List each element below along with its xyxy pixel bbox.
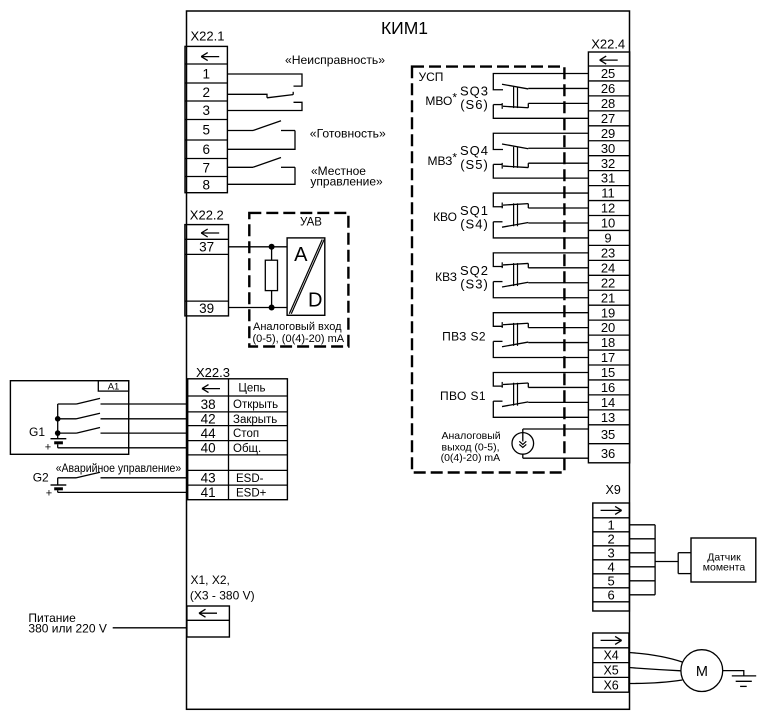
svg-text:7: 7: [202, 160, 210, 175]
box A1 (external control): [10, 381, 128, 455]
svg-text:«Неисправность»: «Неисправность»: [285, 53, 385, 67]
svg-text:35: 35: [601, 427, 615, 442]
svg-text:Открыть: Открыть: [233, 399, 278, 411]
svg-text:X9: X9: [606, 483, 621, 497]
torque sensor connector bracket: [678, 553, 691, 574]
svg-text:УАВ: УАВ: [300, 217, 322, 229]
svg-text:23: 23: [601, 245, 615, 260]
svg-text:25: 25: [601, 66, 615, 81]
svg-text:+: +: [45, 442, 51, 454]
wires X9 pins 1-6 to bus: [629, 525, 655, 595]
svg-text:Аналоговый вход: Аналоговый вход: [253, 321, 342, 333]
wire X5 to motor: [629, 668, 682, 671]
svg-text:31: 31: [601, 171, 615, 186]
svg-text:14: 14: [601, 395, 615, 410]
wire motor to ground: [723, 671, 744, 676]
svg-text:43: 43: [201, 471, 216, 486]
svg-text:(S5): (S5): [460, 157, 489, 172]
svg-text:G1: G1: [29, 425, 45, 439]
connector X4, X5, X6: [593, 633, 629, 692]
wire 39 to A/D: [229, 307, 288, 309]
svg-text:36: 36: [601, 446, 615, 461]
svg-text:41: 41: [201, 485, 216, 500]
svg-text:X22.1: X22.1: [191, 29, 225, 44]
svg-text:27: 27: [601, 111, 615, 126]
svg-text:13: 13: [601, 410, 615, 425]
svg-text:КВЗ: КВЗ: [435, 270, 457, 284]
svg-text:X22.2: X22.2: [190, 208, 224, 223]
wire to pin 36: [523, 457, 589, 459]
svg-text:ESD-: ESD-: [236, 473, 264, 485]
wire G2 plus to pin 41: [58, 491, 188, 493]
svg-text:+: +: [46, 488, 52, 500]
svg-text:19: 19: [601, 305, 615, 320]
switch Закрыть (to pin 42): [58, 413, 188, 419]
svg-text:18: 18: [601, 335, 615, 350]
svg-text:момента: момента: [703, 561, 746, 573]
svg-text:4: 4: [607, 559, 614, 574]
svg-text:D: D: [308, 290, 322, 312]
resistor (input shunt): [265, 247, 277, 308]
svg-text:8: 8: [202, 177, 210, 192]
svg-text:1: 1: [607, 517, 614, 532]
svg-text:40: 40: [201, 441, 216, 456]
svg-text:21: 21: [601, 290, 615, 305]
svg-text:3: 3: [202, 103, 210, 118]
relay changeover contact pins 1-2-3: [227, 74, 302, 111]
limit switch S1 (ПВО) pins 15-16-14-13: [493, 372, 588, 417]
svg-text:X22.3: X22.3: [196, 365, 230, 380]
connector X22.3: [188, 365, 288, 500]
connector X22.4: [588, 37, 629, 463]
wire 37 to A/D: [229, 246, 288, 248]
junction node G1-switch3: [55, 430, 61, 436]
svg-text:28: 28: [601, 96, 615, 111]
svg-text:39: 39: [199, 301, 214, 316]
svg-text:26: 26: [601, 81, 615, 96]
label Аналоговый выход: [441, 430, 501, 464]
box УСП (dashed): [412, 67, 564, 473]
svg-text:9: 9: [604, 231, 611, 246]
svg-text:3: 3: [607, 545, 614, 560]
svg-text:«Аварийное управление»: «Аварийное управление»: [56, 463, 182, 475]
svg-text:X22.4: X22.4: [591, 37, 625, 52]
svg-text:Общ.: Общ.: [233, 443, 261, 455]
svg-text:32: 32: [601, 156, 615, 171]
svg-text:2: 2: [607, 531, 614, 546]
svg-text:2: 2: [202, 85, 210, 100]
svg-text:10: 10: [601, 216, 615, 231]
svg-text:(0(4)-20) mA: (0(4)-20) mA: [441, 452, 501, 464]
box Датчик момента: [691, 538, 756, 582]
svg-text:5: 5: [607, 573, 614, 588]
wire bus to torque sensor: [655, 561, 678, 563]
battery G2: [33, 471, 67, 500]
svg-text:X4: X4: [603, 649, 618, 663]
svg-text:16: 16: [601, 380, 615, 395]
limit switch S2 (ПВЗ) pins 19-20-18-17: [493, 313, 588, 358]
svg-text:(X3 - 380 V): (X3 - 380 V): [190, 589, 255, 603]
svg-text:Закрыть: Закрыть: [233, 414, 277, 426]
КИМ1 enclosure box: [187, 11, 630, 709]
wire X6 to motor: [629, 680, 683, 684]
A/D converter: [287, 238, 325, 315]
svg-text:(S6): (S6): [460, 97, 489, 112]
limit switch SQ3 (МВО*) pins 25-26-28-27: [493, 73, 588, 118]
svg-text:Цепь: Цепь: [238, 383, 265, 395]
battery G1: [29, 404, 66, 454]
junction node G1-switch2: [55, 416, 61, 422]
switch ESD (to pin 43): [58, 472, 188, 478]
svg-text:380 или 220 V: 380 или 220 V: [28, 622, 106, 636]
svg-text:6: 6: [607, 587, 614, 602]
svg-text:«Готовность»: «Готовность»: [310, 126, 386, 140]
current source (analog output) pins 35-36: [512, 429, 534, 458]
box УАВ (dashed): [249, 213, 348, 347]
connector X1, X2 (X3 - 380 V): [187, 573, 255, 637]
junction node on wire 37: [269, 244, 275, 250]
svg-text:G2: G2: [33, 471, 49, 485]
svg-text:(0-5), (0(4)-20) mA: (0-5), (0(4)-20) mA: [252, 333, 344, 345]
svg-text:37: 37: [199, 240, 214, 255]
svg-text:X1, X2,: X1, X2,: [191, 573, 230, 587]
svg-text:A1: A1: [108, 381, 120, 392]
label КВО SQ1 (S4): [433, 203, 489, 232]
label МВЗ SQ4 (S5): [427, 143, 489, 172]
wire Питание supply: [113, 627, 187, 629]
svg-text:20: 20: [601, 320, 615, 335]
svg-text:Аналоговый: Аналоговый: [442, 430, 501, 442]
svg-text:M: M: [696, 664, 708, 680]
limit switch SQ1 (КВО) pins 11-12-10-9: [493, 193, 588, 238]
svg-text:22: 22: [601, 275, 615, 290]
svg-text:КИМ1: КИМ1: [381, 18, 428, 38]
svg-text:29: 29: [601, 126, 615, 141]
svg-text:12: 12: [601, 201, 615, 216]
svg-text:44: 44: [201, 426, 217, 441]
label КВЗ SQ2 (S3): [435, 263, 489, 292]
svg-text:X5: X5: [603, 664, 618, 678]
svg-text:X6: X6: [603, 678, 618, 692]
svg-text:5: 5: [202, 123, 210, 138]
bus junction vertical: [654, 525, 656, 595]
wire X4 to motor: [629, 653, 683, 663]
svg-text:(S3): (S3): [460, 276, 489, 291]
svg-text:11: 11: [601, 186, 615, 201]
svg-text:управление»: управление»: [310, 174, 383, 188]
svg-text:15: 15: [601, 365, 615, 380]
connector X22.1: [185, 29, 227, 193]
svg-text:30: 30: [601, 141, 615, 156]
svg-text:A: A: [294, 244, 308, 266]
contact «Местное управление» pins 7-8: [227, 158, 295, 185]
contact «Готовность» pins 5-6: [227, 121, 295, 150]
svg-text:1: 1: [202, 66, 210, 81]
switch Стоп (to pin 44): [58, 428, 188, 434]
label МВО SQ3 (S6): [425, 83, 489, 112]
ground symbol: [732, 676, 756, 687]
wire G1 plus to pin 40: [58, 447, 188, 449]
svg-text:17: 17: [601, 350, 615, 365]
svg-text:ПВЗ S2: ПВЗ S2: [442, 329, 486, 343]
svg-text:(S4): (S4): [460, 217, 489, 232]
limit switch SQ4 (МВЗ*) pins 29-30-32-31: [493, 133, 588, 178]
motor M: [681, 650, 723, 692]
svg-text:КВО: КВО: [433, 210, 457, 224]
svg-text:6: 6: [202, 142, 210, 157]
svg-text:ESD+: ESD+: [236, 487, 267, 499]
junction node on wire 39: [269, 305, 275, 311]
svg-text:УСП: УСП: [419, 70, 444, 84]
svg-text:42: 42: [201, 412, 216, 427]
svg-text:Стоп: Стоп: [233, 428, 259, 440]
limit switch SQ2 (КВЗ) pins 23-24-22-21: [493, 253, 588, 298]
svg-text:24: 24: [601, 260, 615, 275]
svg-text:ПВО S1: ПВО S1: [440, 389, 486, 403]
connector X22.2: [185, 208, 229, 317]
switch Открыть (to pin 38): [58, 398, 188, 404]
connector X9: [593, 483, 630, 611]
wire to pin 35: [523, 428, 589, 430]
svg-text:38: 38: [201, 397, 216, 412]
